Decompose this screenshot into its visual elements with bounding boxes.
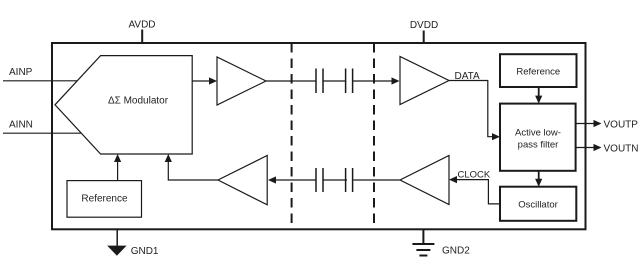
wire between C1 and C2: [323, 80, 346, 82]
wire VOUTP output with arrow: [576, 120, 602, 127]
wire AVDD stem: [141, 30, 143, 44]
wire DATA to active filter with arrow: [449, 81, 500, 141]
wire reference to modulator with arrow: [114, 154, 121, 181]
svg-text:AVDD: AVDD: [128, 20, 155, 31]
wire AINN input: [3, 132, 81, 134]
buffer A2 data receive amplifier: [400, 57, 449, 105]
block U5 reference (primary side): [67, 181, 142, 218]
wire reference to filter with arrow: [535, 87, 542, 104]
buffer A4 clock receive amplifier (points left): [218, 156, 267, 205]
svg-text:Reference: Reference: [516, 67, 560, 78]
block U4 oscillator: [500, 187, 576, 221]
isolation barrier dashed line right: [373, 43, 375, 229]
wire C2 to receiver A2 with arrow: [353, 77, 400, 84]
wire filter to oscillator with arrow: [535, 171, 542, 187]
wire modulator output to buffer with arrow: [192, 77, 217, 84]
svg-text:GND2: GND2: [442, 246, 470, 257]
svg-text:CLOCK: CLOCK: [458, 169, 491, 180]
IC outer boundary box: [52, 43, 586, 229]
buffer A3 clock transmit amplifier (points left): [400, 156, 449, 205]
ground GND2 symbol (digital earth ground): [412, 229, 434, 255]
wire buffer A1 to capacitor C1: [266, 80, 316, 82]
svg-text:Reference: Reference: [81, 194, 128, 205]
wire AINP input: [3, 80, 77, 82]
capacitor C3 isolation clock: [316, 168, 323, 192]
block U3 active low-pass filter: [500, 104, 576, 171]
svg-text:VOUTP: VOUTP: [604, 119, 639, 130]
svg-text:GND1: GND1: [131, 246, 159, 257]
wire DVDD stem: [423, 31, 425, 44]
ground GND1 symbol (analog ground, filled triangle): [107, 229, 126, 255]
block U1 delta-sigma modulator: [55, 56, 192, 154]
wire clock to modulator with arrow: [165, 154, 218, 180]
wire between C4 and C3: [323, 179, 347, 181]
wire VOUTN output with arrow: [576, 144, 602, 151]
capacitor C2 isolation data: [346, 69, 353, 94]
svg-text:pass filter: pass filter: [518, 139, 559, 150]
svg-text:Active low-: Active low-: [515, 128, 561, 139]
wire oscillator to clock driver with arrow: [449, 176, 500, 204]
wire C3 to clock receiver A4 with arrow: [268, 176, 316, 183]
capacitor C4 isolation clock: [346, 168, 353, 192]
svg-text:AINN: AINN: [9, 120, 33, 131]
block U2 reference (secondary side): [500, 54, 577, 87]
svg-text:ΔΣ Modulator: ΔΣ Modulator: [108, 96, 169, 107]
capacitor C1 isolation data: [316, 69, 323, 94]
svg-text:Oscillator: Oscillator: [518, 200, 558, 211]
buffer A1 data transmit amplifier: [217, 57, 266, 105]
svg-text:AINP: AINP: [9, 67, 33, 78]
svg-text:VOUTN: VOUTN: [604, 143, 639, 154]
wire A3 to capacitor C4: [354, 179, 401, 181]
isolation barrier dashed line left: [291, 43, 293, 229]
svg-text:DVDD: DVDD: [410, 20, 438, 31]
